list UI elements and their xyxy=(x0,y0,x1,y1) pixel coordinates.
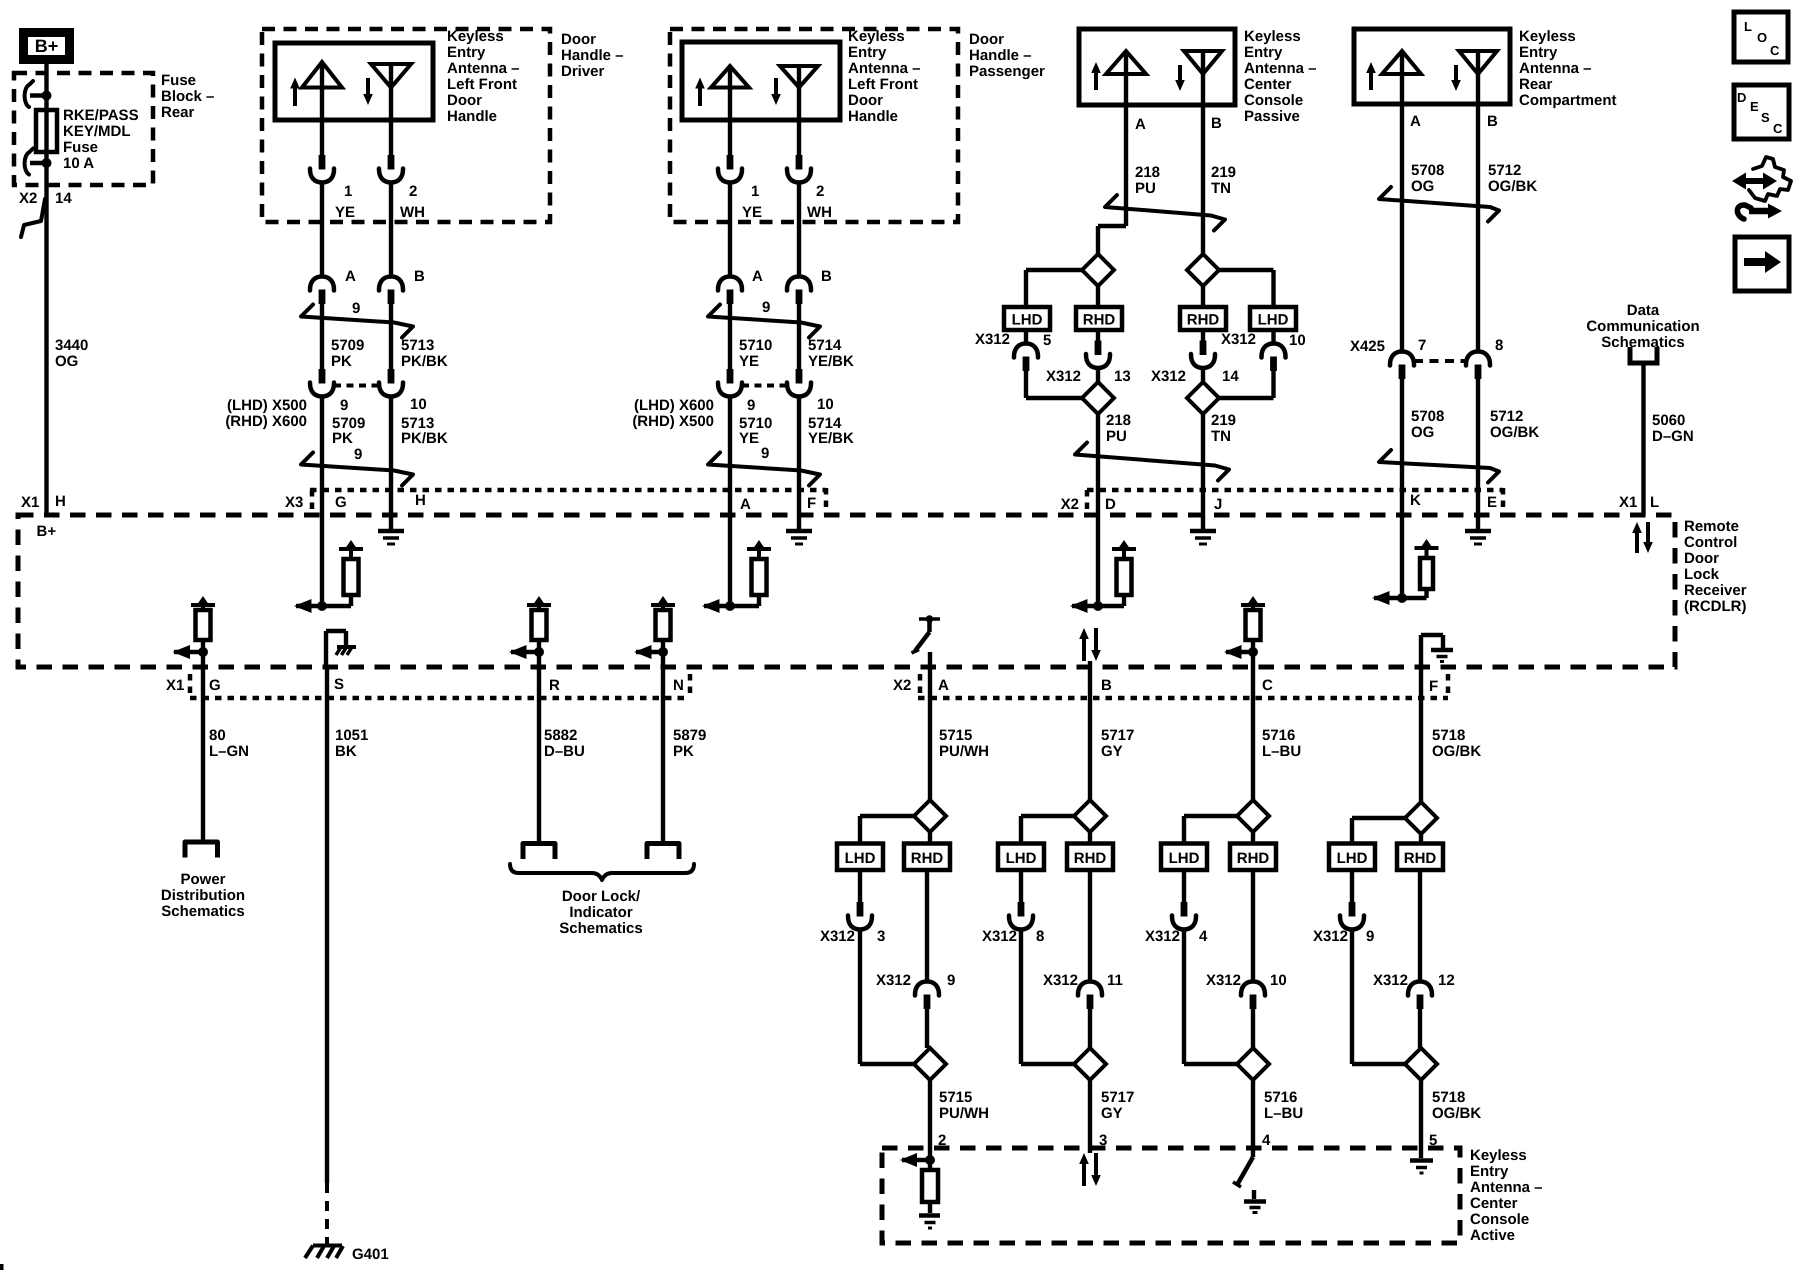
svg-text:D: D xyxy=(1737,90,1746,105)
svg-text:14: 14 xyxy=(1222,368,1239,385)
svg-text:219: 219 xyxy=(1211,164,1236,181)
svg-text:5713: 5713 xyxy=(401,337,434,354)
svg-text:Schematics: Schematics xyxy=(559,920,642,937)
svg-text:Door: Door xyxy=(447,92,482,109)
svg-text:13: 13 xyxy=(1114,368,1131,385)
svg-text:1: 1 xyxy=(751,183,759,200)
svg-text:L–BU: L–BU xyxy=(1262,743,1301,760)
svg-text:YE/BK: YE/BK xyxy=(808,353,854,370)
svg-text:9: 9 xyxy=(747,397,755,414)
svg-text:Keyless: Keyless xyxy=(1519,28,1576,45)
svg-text:7: 7 xyxy=(1418,337,1426,354)
svg-text:PK: PK xyxy=(673,743,694,760)
svg-text:14: 14 xyxy=(55,190,72,207)
svg-text:WH: WH xyxy=(400,204,425,221)
svg-text:(RHD) X600: (RHD) X600 xyxy=(225,413,307,430)
svg-text:BK: BK xyxy=(335,743,357,760)
svg-text:5708: 5708 xyxy=(1411,408,1444,425)
svg-text:X312: X312 xyxy=(1313,928,1348,945)
svg-text:10: 10 xyxy=(410,396,427,413)
svg-text:8: 8 xyxy=(1036,928,1044,945)
svg-text:E: E xyxy=(1487,494,1497,511)
svg-text:218: 218 xyxy=(1135,164,1160,181)
svg-text:9: 9 xyxy=(352,300,360,317)
svg-text:A: A xyxy=(752,268,763,285)
svg-text:PK/BK: PK/BK xyxy=(401,353,448,370)
svg-text:2: 2 xyxy=(938,1132,946,1149)
svg-text:YE: YE xyxy=(739,353,759,370)
svg-text:4: 4 xyxy=(1199,928,1208,945)
svg-text:5879: 5879 xyxy=(673,727,706,744)
svg-text:9: 9 xyxy=(947,972,955,989)
svg-text:Antenna –: Antenna – xyxy=(1519,60,1592,77)
svg-text:Remote: Remote xyxy=(1684,518,1739,535)
svg-text:X312: X312 xyxy=(1151,368,1186,385)
svg-text:PU: PU xyxy=(1106,428,1127,445)
svg-text:B: B xyxy=(1487,113,1498,130)
svg-text:F: F xyxy=(807,495,816,512)
svg-text:5710: 5710 xyxy=(739,337,772,354)
svg-text:5718: 5718 xyxy=(1432,727,1465,744)
svg-text:Rear: Rear xyxy=(161,104,195,121)
svg-text:LHD: LHD xyxy=(1012,312,1043,329)
svg-text:RHD: RHD xyxy=(1074,850,1107,867)
svg-text:(RHD) X500: (RHD) X500 xyxy=(632,413,714,430)
svg-text:Indicator: Indicator xyxy=(569,904,633,921)
svg-text:Passive: Passive xyxy=(1244,108,1300,125)
svg-text:Data: Data xyxy=(1627,302,1660,319)
svg-text:(RCDLR): (RCDLR) xyxy=(1684,598,1746,615)
svg-text:LHD: LHD xyxy=(1169,850,1200,867)
svg-text:9: 9 xyxy=(340,397,348,414)
svg-text:D: D xyxy=(1105,496,1116,513)
svg-text:OG/BK: OG/BK xyxy=(1488,178,1537,195)
svg-text:10: 10 xyxy=(1289,332,1306,349)
svg-text:X312: X312 xyxy=(1206,972,1241,989)
svg-text:A: A xyxy=(1135,116,1146,133)
svg-text:L–GN: L–GN xyxy=(209,743,249,760)
svg-text:PU: PU xyxy=(1135,180,1156,197)
svg-text:Schematics: Schematics xyxy=(161,903,244,920)
svg-text:Schematics: Schematics xyxy=(1601,334,1684,351)
svg-text:L: L xyxy=(1744,19,1752,34)
svg-text:Driver: Driver xyxy=(561,63,605,80)
svg-text:YE: YE xyxy=(739,430,759,447)
svg-text:H: H xyxy=(415,492,426,509)
svg-text:C: C xyxy=(1773,121,1783,136)
svg-text:Entry: Entry xyxy=(1519,44,1558,61)
svg-text:9: 9 xyxy=(354,446,362,463)
svg-text:Rear: Rear xyxy=(1519,76,1553,93)
svg-text:OG: OG xyxy=(1411,424,1434,441)
svg-text:C: C xyxy=(1262,677,1273,694)
svg-text:TN: TN xyxy=(1211,180,1231,197)
svg-text:9: 9 xyxy=(761,445,769,462)
svg-text:5716: 5716 xyxy=(1262,727,1295,744)
svg-text:4: 4 xyxy=(1262,1132,1271,1149)
svg-text:Antenna –: Antenna – xyxy=(1244,60,1317,77)
svg-text:Door: Door xyxy=(561,31,596,48)
svg-text:5712: 5712 xyxy=(1490,408,1523,425)
svg-text:OG/BK: OG/BK xyxy=(1432,1105,1481,1122)
svg-text:Compartment: Compartment xyxy=(1519,92,1617,109)
svg-text:(LHD) X500: (LHD) X500 xyxy=(227,397,307,414)
svg-text:X2: X2 xyxy=(1061,496,1079,513)
svg-text:B+: B+ xyxy=(35,36,59,56)
svg-text:PK/BK: PK/BK xyxy=(401,430,448,447)
svg-text:LHD: LHD xyxy=(1337,850,1368,867)
svg-text:A: A xyxy=(1410,113,1421,130)
svg-text:Entry: Entry xyxy=(848,44,887,61)
svg-text:Handle: Handle xyxy=(447,108,497,125)
svg-text:Center: Center xyxy=(1470,1195,1518,1212)
svg-text:A: A xyxy=(938,677,949,694)
svg-text:Keyless: Keyless xyxy=(848,28,905,45)
svg-text:Door: Door xyxy=(848,92,883,109)
svg-text:B: B xyxy=(414,268,425,285)
svg-text:Passenger: Passenger xyxy=(969,63,1045,80)
svg-text:RHD: RHD xyxy=(1404,850,1437,867)
svg-text:X312: X312 xyxy=(982,928,1017,945)
svg-text:3: 3 xyxy=(1099,1132,1107,1149)
svg-text:OG: OG xyxy=(1411,178,1434,195)
svg-text:S: S xyxy=(334,676,344,693)
svg-text:X312: X312 xyxy=(1145,928,1180,945)
svg-text:X425: X425 xyxy=(1350,338,1385,355)
svg-text:B: B xyxy=(1101,677,1112,694)
svg-text:X312: X312 xyxy=(1043,972,1078,989)
svg-text:X312: X312 xyxy=(820,928,855,945)
svg-text:2: 2 xyxy=(409,183,417,200)
svg-text:WH: WH xyxy=(807,204,832,221)
svg-text:Door: Door xyxy=(969,31,1004,48)
svg-text:A: A xyxy=(345,268,356,285)
svg-text:X1: X1 xyxy=(21,494,39,511)
svg-text:9: 9 xyxy=(762,299,770,316)
svg-text:N: N xyxy=(673,677,684,694)
svg-text:G: G xyxy=(335,494,347,511)
svg-text:PK: PK xyxy=(331,353,352,370)
svg-text:G: G xyxy=(209,677,221,694)
svg-text:Fuse: Fuse xyxy=(63,139,98,156)
svg-text:5060: 5060 xyxy=(1652,412,1685,429)
svg-text:PU/WH: PU/WH xyxy=(939,743,989,760)
svg-text:RKE/PASS: RKE/PASS xyxy=(63,107,139,124)
svg-text:YE: YE xyxy=(742,204,762,221)
svg-text:5716: 5716 xyxy=(1264,1089,1297,1106)
svg-text:Active: Active xyxy=(1470,1227,1515,1244)
svg-text:(LHD) X600: (LHD) X600 xyxy=(634,397,714,414)
svg-text:X312: X312 xyxy=(1221,331,1256,348)
svg-text:3: 3 xyxy=(877,928,885,945)
svg-text:3440: 3440 xyxy=(55,337,88,354)
svg-text:X312: X312 xyxy=(975,331,1010,348)
svg-text:9: 9 xyxy=(1366,928,1374,945)
svg-text:KEY/MDL: KEY/MDL xyxy=(63,123,131,140)
svg-text:OG: OG xyxy=(55,353,78,370)
svg-text:X1: X1 xyxy=(166,677,184,694)
svg-text:218: 218 xyxy=(1106,412,1131,429)
svg-text:D–BU: D–BU xyxy=(544,743,585,760)
svg-text:5: 5 xyxy=(1043,332,1051,349)
svg-text:Left Front: Left Front xyxy=(447,76,517,93)
svg-text:1: 1 xyxy=(344,183,352,200)
svg-text:5714: 5714 xyxy=(808,337,842,354)
svg-text:5718: 5718 xyxy=(1432,1089,1465,1106)
svg-text:O: O xyxy=(1757,30,1767,45)
svg-text:S: S xyxy=(1761,110,1770,125)
svg-text:B: B xyxy=(821,268,832,285)
svg-text:X312: X312 xyxy=(1373,972,1408,989)
svg-text:Console: Console xyxy=(1244,92,1303,109)
svg-text:Antenna –: Antenna – xyxy=(447,60,520,77)
svg-text:G401: G401 xyxy=(352,1246,389,1263)
svg-text:X1: X1 xyxy=(1619,494,1637,511)
svg-text:5717: 5717 xyxy=(1101,727,1134,744)
svg-text:RHD: RHD xyxy=(1083,312,1116,329)
svg-text:YE/BK: YE/BK xyxy=(808,430,854,447)
svg-text:RHD: RHD xyxy=(1187,312,1220,329)
svg-text:LHD: LHD xyxy=(1258,312,1289,329)
svg-text:5709: 5709 xyxy=(331,337,364,354)
svg-text:L–BU: L–BU xyxy=(1264,1105,1303,1122)
svg-text:5708: 5708 xyxy=(1411,162,1444,179)
svg-text:219: 219 xyxy=(1211,412,1236,429)
svg-text:5717: 5717 xyxy=(1101,1089,1134,1106)
svg-text:K: K xyxy=(1410,492,1421,509)
svg-text:F: F xyxy=(1429,678,1438,695)
svg-text:Door: Door xyxy=(1684,550,1719,567)
svg-text:Lock: Lock xyxy=(1684,566,1720,583)
svg-text:Communication: Communication xyxy=(1586,318,1699,335)
svg-text:B: B xyxy=(1211,115,1222,132)
svg-text:Handle –: Handle – xyxy=(561,47,624,64)
svg-text:OG/BK: OG/BK xyxy=(1432,743,1481,760)
svg-text:GY: GY xyxy=(1101,743,1123,760)
svg-text:Entry: Entry xyxy=(1470,1163,1509,1180)
svg-text:Control: Control xyxy=(1684,534,1737,551)
svg-text:X3: X3 xyxy=(285,494,303,511)
svg-text:Handle: Handle xyxy=(848,108,898,125)
svg-text:Center: Center xyxy=(1244,76,1292,93)
svg-text:L: L xyxy=(1650,494,1659,511)
svg-text:5715: 5715 xyxy=(939,1089,972,1106)
svg-text:Block –: Block – xyxy=(161,88,214,105)
svg-text:LHD: LHD xyxy=(1006,850,1037,867)
svg-text:5882: 5882 xyxy=(544,727,577,744)
svg-text:C: C xyxy=(1770,43,1780,58)
svg-text:Keyless: Keyless xyxy=(1470,1147,1527,1164)
svg-text:10 A: 10 A xyxy=(63,155,94,172)
svg-text:Antenna –: Antenna – xyxy=(1470,1179,1543,1196)
svg-text:YE: YE xyxy=(335,204,355,221)
svg-text:E: E xyxy=(1750,99,1759,114)
svg-text:1051: 1051 xyxy=(335,727,368,744)
svg-text:RHD: RHD xyxy=(911,850,944,867)
svg-text:5715: 5715 xyxy=(939,727,972,744)
svg-text:10: 10 xyxy=(1270,972,1287,989)
svg-text:Distribution: Distribution xyxy=(161,887,245,904)
svg-text:80: 80 xyxy=(209,727,226,744)
svg-text:Receiver: Receiver xyxy=(1684,582,1747,599)
svg-text:11: 11 xyxy=(1107,972,1123,989)
svg-text:12: 12 xyxy=(1438,972,1455,989)
svg-text:RHD: RHD xyxy=(1237,850,1270,867)
svg-text:Power: Power xyxy=(180,871,225,888)
svg-text:X2: X2 xyxy=(893,677,911,694)
svg-text:Console: Console xyxy=(1470,1211,1529,1228)
svg-text:J: J xyxy=(1214,496,1222,513)
svg-text:Keyless: Keyless xyxy=(447,28,504,45)
svg-text:10: 10 xyxy=(817,396,834,413)
svg-text:2: 2 xyxy=(816,183,824,200)
svg-text:A: A xyxy=(740,496,751,513)
svg-text:Antenna –: Antenna – xyxy=(848,60,921,77)
svg-text:Entry: Entry xyxy=(1244,44,1283,61)
svg-text:GY: GY xyxy=(1101,1105,1123,1122)
svg-text:X2: X2 xyxy=(19,190,37,207)
svg-text:R: R xyxy=(549,677,560,694)
svg-text:Handle –: Handle – xyxy=(969,47,1032,64)
svg-text:Door Lock/: Door Lock/ xyxy=(562,888,641,905)
svg-text:Left Front: Left Front xyxy=(848,76,918,93)
svg-text:Entry: Entry xyxy=(447,44,486,61)
svg-text:OG/BK: OG/BK xyxy=(1490,424,1539,441)
svg-text:Keyless: Keyless xyxy=(1244,28,1301,45)
svg-text:X312: X312 xyxy=(876,972,911,989)
svg-text:TN: TN xyxy=(1211,428,1231,445)
svg-text:PK: PK xyxy=(332,430,353,447)
svg-text:X312: X312 xyxy=(1046,368,1081,385)
svg-text:LHD: LHD xyxy=(845,850,876,867)
svg-text:Fuse: Fuse xyxy=(161,72,196,89)
svg-text:5712: 5712 xyxy=(1488,162,1521,179)
svg-text:D–GN: D–GN xyxy=(1652,428,1694,445)
svg-text:B+: B+ xyxy=(37,523,57,540)
svg-text:PU/WH: PU/WH xyxy=(939,1105,989,1122)
svg-text:H: H xyxy=(55,493,66,510)
svg-text:5: 5 xyxy=(1429,1132,1437,1149)
svg-text:8: 8 xyxy=(1495,337,1503,354)
